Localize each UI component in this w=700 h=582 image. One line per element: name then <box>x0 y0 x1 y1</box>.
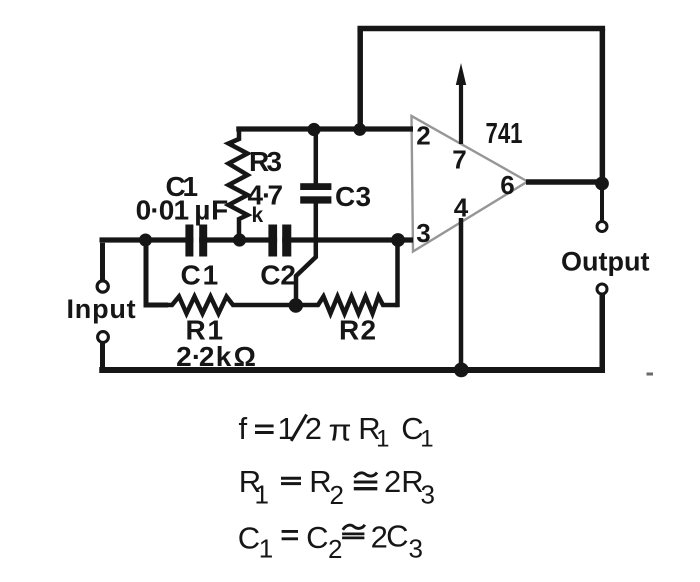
svg-text:7: 7 <box>268 180 284 211</box>
svg-text:k: k <box>252 204 264 227</box>
wire: main-line branch down to R1 left end <box>146 240 168 305</box>
svg-text:1: 1 <box>174 194 190 225</box>
wire: main line from input corner to op-amp pin 3 <box>100 237 414 242</box>
svg-text:2: 2 <box>330 480 344 510</box>
svg-text:2: 2 <box>176 341 192 372</box>
svg-text:3: 3 <box>267 146 283 177</box>
label C1 (name above) <box>166 171 199 202</box>
svg-text:1: 1 <box>420 426 433 453</box>
label C1 (below capacitor) <box>181 259 219 290</box>
resistor R1 <box>166 297 296 314</box>
svg-text:π: π <box>329 413 352 448</box>
svg-text:C: C <box>335 181 355 212</box>
svg-text:6: 6 <box>500 170 514 200</box>
svg-text:0: 0 <box>136 194 152 225</box>
svg-text:2: 2 <box>361 315 377 346</box>
terminal: output upper circle <box>597 222 607 232</box>
node: R3 bottom junction on main line <box>233 233 246 246</box>
wire: input lower terminal down to bottom rail <box>100 343 105 374</box>
slash of 1/2 <box>291 415 306 441</box>
equals sign line 3 <box>282 531 298 538</box>
wire: bottom rail <box>99 367 605 373</box>
wire: top rail <box>357 26 605 32</box>
op-amp U1 741 body <box>412 116 528 252</box>
node: C3 top junction <box>307 123 320 136</box>
svg-text:1: 1 <box>259 534 273 564</box>
node: pin 3 junction <box>391 233 405 247</box>
equals sign line 1 <box>255 426 274 433</box>
wire: C3 bottom to R1/R2 junction (crosses main line) <box>296 203 316 306</box>
svg-text:Input: Input <box>67 294 137 324</box>
svg-text:k: k <box>216 341 232 372</box>
svg-text:741: 741 <box>486 118 523 150</box>
resistor R3 vertical with leads <box>229 127 248 240</box>
svg-text:3: 3 <box>421 480 435 510</box>
power arrow on pin 7 <box>456 63 466 144</box>
svg-text:2: 2 <box>416 121 430 151</box>
formula line 1: f = 1/2 pi R1 C1 <box>239 411 434 453</box>
label 2·2kΩ <box>176 341 256 372</box>
terminal: input lower circle <box>98 332 109 343</box>
wire: R2 right end up to pin 3 node <box>395 240 400 307</box>
equals sign line 2 <box>281 478 301 483</box>
svg-text:2: 2 <box>384 464 401 499</box>
node: feedback junction on pin2 line <box>353 123 366 136</box>
wire: input upper terminal up to main line <box>100 243 105 281</box>
resistor R2 <box>296 297 398 314</box>
wire: pin 4 down to bottom rail <box>459 218 464 370</box>
wire: pin2 top line <box>236 126 413 131</box>
congruent symbol line 2 <box>354 473 378 489</box>
formula line 2: R1 = R2 congruent 2R3 <box>239 464 435 510</box>
label R1 <box>186 315 224 346</box>
wire: output node down to upper output terminal <box>600 183 604 222</box>
svg-text:4: 4 <box>454 193 469 223</box>
svg-text:3: 3 <box>356 181 372 212</box>
formula line 3: C1 = C2 congruent 2C3 <box>238 519 423 565</box>
scan speck near bottom right <box>647 373 654 376</box>
terminal: input upper circle <box>97 281 108 292</box>
svg-text:0: 0 <box>159 194 175 225</box>
congruent symbol line 3 <box>342 525 365 538</box>
svg-text:C: C <box>260 259 280 290</box>
svg-text:2: 2 <box>305 411 322 446</box>
wire: right side vertical down to output node <box>600 29 606 184</box>
svg-text:2: 2 <box>199 341 215 372</box>
svg-text:1: 1 <box>376 426 389 453</box>
svg-text:µ: µ <box>194 194 210 225</box>
node: branch junction on main line <box>139 234 152 247</box>
svg-text:3: 3 <box>416 218 430 248</box>
terminal: output lower circle <box>597 284 607 294</box>
node: output junction <box>595 177 609 191</box>
node: pin4 / bottom rail junction <box>454 363 469 378</box>
svg-text:C: C <box>238 520 260 555</box>
svg-text:R: R <box>339 315 359 346</box>
svg-text:Output: Output <box>561 247 649 277</box>
label C2 <box>260 259 296 290</box>
svg-text:7: 7 <box>452 145 466 175</box>
label R3 <box>249 146 282 177</box>
svg-text:2: 2 <box>328 534 342 564</box>
svg-text:3: 3 <box>409 534 423 564</box>
label R2 <box>339 315 376 346</box>
wire: lower output terminal down to bottom rail <box>600 294 606 373</box>
svg-text:1: 1 <box>203 259 219 290</box>
svg-text:C: C <box>306 520 328 555</box>
wire: op-amp pin 6 output to output node <box>526 179 605 185</box>
wire: feedback vertical from pin2 line up to top rail <box>357 29 363 132</box>
svg-text:f: f <box>239 411 248 446</box>
svg-text:1: 1 <box>255 480 269 510</box>
capacitor C3 with top lead <box>300 130 331 204</box>
svg-text:F: F <box>211 194 228 225</box>
label C3 <box>335 181 371 212</box>
capacitor C2 <box>268 225 291 257</box>
svg-text:2: 2 <box>280 259 296 290</box>
node: R1/R2 junction <box>289 298 303 312</box>
label 0·01 µF <box>136 194 229 225</box>
svg-text:C: C <box>386 519 408 554</box>
svg-text:C: C <box>181 259 201 290</box>
label 4·7 <box>248 180 284 211</box>
svg-text:Ω: Ω <box>234 341 256 372</box>
svg-text:R: R <box>309 464 331 499</box>
capacitor C1 <box>185 225 207 257</box>
